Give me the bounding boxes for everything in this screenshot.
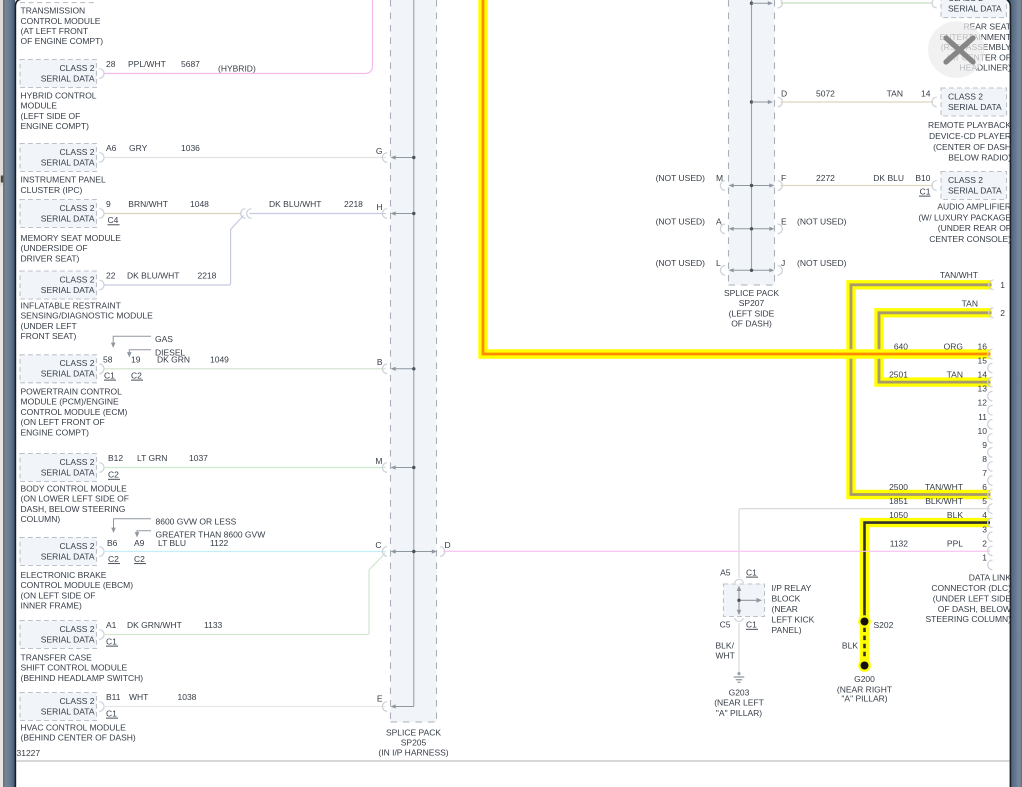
DLC connector arc pin 14 (988, 377, 993, 387)
svg-text:640: 640 (894, 342, 908, 352)
svg-text:DEVICE-CD PLAYER: DEVICE-CD PLAYER (929, 131, 1011, 141)
svg-text:(NEAR: (NEAR (772, 604, 798, 614)
svg-text:9: 9 (982, 440, 987, 450)
svg-text:(NOT USED): (NOT USED) (797, 216, 847, 226)
DLC connector arc pin 10 (988, 434, 993, 444)
DLC connector arc pin 9 (988, 448, 993, 458)
svg-text:LT GRN: LT GRN (137, 453, 167, 463)
GREATER THAN pointer elbow arrow (137, 531, 151, 534)
SP205 connector arc at M (382, 463, 387, 473)
svg-text:MEMORY SEAT MODULE: MEMORY SEAT MODULE (21, 233, 122, 243)
SP205 connector arc at B (382, 364, 387, 374)
left sidebar grip mark (1, 176, 3, 183)
connector box U7 CLASS 2 SERIAL DATA (EBCM) (20, 538, 97, 566)
svg-text:TAN/WHT: TAN/WHT (925, 482, 963, 492)
SP205 arrow at M (395, 467, 414, 469)
SP205 pass-through arrow C to D (395, 551, 434, 553)
svg-text:C1: C1 (746, 567, 757, 577)
svg-text:12: 12 (978, 398, 988, 408)
connector box CLASS 2 SERIAL DATA (RSE, cut at top) (941, 0, 1007, 18)
svg-text:(UNDER REAR OF: (UNDER REAR OF (938, 223, 1011, 233)
svg-text:(NOT USED): (NOT USED) (656, 173, 706, 183)
svg-text:8600 GVW OR LESS: 8600 GVW OR LESS (156, 516, 237, 526)
svg-text:1122: 1122 (210, 538, 229, 548)
svg-text:CONNECTOR (DLC): CONNECTOR (DLC) (931, 583, 1011, 593)
svg-text:F: F (781, 173, 786, 183)
SP205 connector arc at G (382, 153, 387, 163)
DLC connector arc pin 5 (988, 504, 993, 514)
DLC connector arc pin 3 (988, 532, 993, 542)
svg-text:(BEHIND CENTER OF DASH): (BEHIND CENTER OF DASH) (21, 733, 136, 743)
svg-text:CENTER CONSOLE): CENTER CONSOLE) (929, 234, 1011, 244)
svg-text:(ON LEFT FRONT OF: (ON LEFT FRONT OF (21, 417, 105, 427)
svg-text:CLASS 2: CLASS 2 (60, 203, 95, 213)
svg-text:PANEL): PANEL) (772, 625, 802, 635)
svg-text:DK BLU/WHT: DK BLU/WHT (127, 271, 179, 281)
svg-text:INFLATABLE RESTRAINT: INFLATABLE RESTRAINT (21, 301, 121, 311)
svg-text:C1: C1 (104, 370, 115, 380)
wire BRN/WHT 1048 from memory seat module (104, 213, 243, 215)
connector arc at EBCM pins (99, 547, 104, 557)
SP205 junction dot at G (412, 156, 415, 159)
relay block top connector arc (735, 579, 744, 583)
svg-text:A6: A6 (106, 143, 117, 153)
connector arc at inflatable restraint pin 22 (99, 280, 104, 290)
svg-text:DK BLU/WHT: DK BLU/WHT (269, 199, 321, 209)
svg-text:OF DASH, BELOW: OF DASH, BELOW (938, 604, 1011, 614)
svg-text:2272: 2272 (816, 173, 835, 183)
svg-text:SERIAL DATA: SERIAL DATA (41, 634, 95, 644)
svg-text:SP205: SP205 (401, 738, 427, 748)
svg-text:1036: 1036 (181, 143, 200, 153)
svg-text:CLASS 2: CLASS 2 (60, 63, 95, 73)
svg-text:CONTROL MODULE (ECM): CONTROL MODULE (ECM) (21, 407, 128, 417)
svg-text:DK BLU: DK BLU (873, 173, 904, 183)
svg-text:ENGINE COMPT): ENGINE COMPT) (21, 427, 90, 437)
svg-text:DATA LINK: DATA LINK (969, 573, 1012, 583)
svg-text:(NOT USED): (NOT USED) (797, 258, 847, 268)
connector box U4 CLASS 2 SERIAL DATA (inflatable restraint module) (20, 271, 97, 299)
svg-text:C4: C4 (108, 215, 119, 225)
left outer window border line (3, 0, 4, 787)
dashed BLK wire between splice S202 and ground G200 (863, 628, 866, 659)
svg-text:(UNDERSIDE OF: (UNDERSIDE OF (21, 243, 88, 253)
DLC connector arc pin 1 top (989, 280, 994, 290)
svg-text:BLK/: BLK/ (716, 640, 735, 650)
ground G200 dot (858, 659, 871, 672)
connector box U8 CLASS 2 SERIAL DATA (transfer case module) (20, 621, 97, 649)
svg-text:BLK: BLK (947, 510, 963, 520)
svg-text:SERIAL DATA: SERIAL DATA (41, 551, 95, 561)
connector box CLASS 2 SERIAL DATA (audio amplifier) (941, 172, 1007, 200)
svg-text:AUDIO AMPLIFIER: AUDIO AMPLIFIER (937, 202, 1011, 212)
DLC connector arc pin 16 (988, 349, 993, 359)
svg-text:TRANSFER CASE: TRANSFER CASE (21, 653, 93, 663)
svg-text:1133: 1133 (204, 620, 223, 630)
svg-text:DK GRN/WHT: DK GRN/WHT (127, 620, 182, 630)
GAS pointer elbow arrow (113, 336, 151, 344)
svg-text:"A" PILLAR): "A" PILLAR) (716, 708, 762, 718)
connector arc at hybrid module pin 28 (99, 69, 104, 79)
svg-text:J: J (781, 258, 785, 268)
svg-text:WHT: WHT (716, 651, 735, 661)
highlighted wire BLK 1050 from DLC pin 4 to ground G200 (865, 523, 991, 666)
SP207 double arrow at M/F row (733, 185, 771, 187)
svg-text:CLASS 2: CLASS 2 (60, 457, 95, 467)
svg-text:5072: 5072 (816, 89, 835, 99)
left outer window strip (0, 0, 3, 787)
svg-text:TAN: TAN (962, 298, 978, 308)
svg-text:LEFT KICK: LEFT KICK (772, 615, 815, 625)
svg-text:(LEFT SIDE OF: (LEFT SIDE OF (21, 111, 81, 121)
svg-text:HYBRID CONTROL: HYBRID CONTROL (21, 91, 97, 101)
svg-text:MODULE (PCM)/ENGINE: MODULE (PCM)/ENGINE (21, 397, 120, 407)
svg-text:10: 10 (978, 426, 988, 436)
svg-text:B6: B6 (107, 538, 118, 548)
close button (928, 21, 985, 78)
svg-text:ORG: ORG (944, 342, 963, 352)
I/P relay block box (724, 584, 765, 617)
svg-text:CLASS 2: CLASS 2 (60, 624, 95, 634)
connector arc at remote playback box (932, 97, 937, 107)
wire DK BLU/WHT 2218 to SP205 at H (250, 213, 386, 215)
svg-text:"A" PILLAR): "A" PILLAR) (841, 694, 887, 704)
SP207 connector arc at M row left (720, 181, 725, 191)
SP205 arrow at H (395, 213, 414, 215)
highlighted wire TAN/WHT from DLC pin 1 to pin 6 (851, 285, 992, 495)
splice pack SP207 right dashed boundary (774, 0, 776, 285)
splice pack SP205 left dashed boundary (390, 0, 392, 722)
SP205 connector arc at E (382, 702, 387, 712)
svg-text:DK GRN: DK GRN (157, 354, 190, 364)
SP207 connector arc at F row right (778, 181, 783, 191)
left slate sidebar (5, 0, 16, 787)
svg-text:SERIAL DATA: SERIAL DATA (948, 185, 1002, 195)
svg-text:8: 8 (982, 454, 987, 464)
connector box CLASS 2 SERIAL DATA (remote playback) (941, 88, 1007, 116)
splice pack SP205 right dashed boundary (436, 0, 438, 722)
svg-text:CLASS 2: CLASS 2 (948, 91, 983, 101)
splice pack SP207 left dashed boundary (728, 0, 730, 285)
connector arc at memory seat module pin 9 (99, 209, 104, 219)
svg-text:31227: 31227 (17, 748, 41, 758)
svg-text:WHT: WHT (129, 692, 148, 702)
svg-text:SERIAL DATA: SERIAL DATA (41, 285, 95, 295)
DLC connector arc pin 8 (988, 462, 993, 472)
DLC connector arc pin 15 (988, 363, 993, 373)
svg-text:BLOCK: BLOCK (772, 594, 801, 604)
connector arc at BCM pin B12 (99, 463, 104, 473)
svg-text:B10: B10 (915, 173, 930, 183)
svg-text:SERIAL DATA: SERIAL DATA (41, 706, 95, 716)
splice pack SP207 bottom dashed edge (729, 284, 775, 286)
splice pack SP205 bottom dashed edge (391, 721, 437, 723)
svg-text:TAN: TAN (947, 370, 963, 380)
svg-text:L: L (716, 258, 721, 268)
SP205 arrow at G (395, 157, 414, 159)
cut-off module box at top left (bottom edge) (20, 2, 97, 4)
SP205 arrow at B (395, 368, 414, 370)
svg-text:(UNDER LEFT SIDE: (UNDER LEFT SIDE (933, 593, 1012, 603)
DIESEL pointer elbow arrow (129, 350, 151, 354)
svg-text:CONTROL MODULE (EBCM): CONTROL MODULE (EBCM) (21, 580, 134, 590)
svg-text:CLASS 2: CLASS 2 (948, 175, 983, 185)
svg-text:(HYBRID): (HYBRID) (218, 64, 256, 74)
svg-text:FRONT SEAT): FRONT SEAT) (21, 331, 77, 341)
wire LT BLU 1122 from EBCM to SP205 (104, 551, 386, 553)
svg-text:G: G (376, 146, 383, 156)
DLC connector arc pin 1 (988, 560, 993, 570)
inline connector arcs between 1048 and 2218 (241, 209, 246, 219)
svg-text:1132: 1132 (890, 538, 909, 548)
svg-text:1037: 1037 (189, 453, 208, 463)
svg-text:2218: 2218 (198, 271, 217, 281)
svg-text:CLASS 2: CLASS 2 (60, 274, 95, 284)
svg-text:C2: C2 (108, 554, 119, 564)
svg-text:(NOT USED): (NOT USED) (656, 216, 706, 226)
DLC connector arc pin 4 (988, 518, 993, 528)
splice S202 dot (858, 615, 871, 628)
wire PPL/WHT 5687 from hybrid module to top of page (104, 0, 373, 74)
svg-text:E: E (781, 216, 787, 226)
svg-text:SERIAL DATA: SERIAL DATA (41, 213, 95, 223)
svg-text:5: 5 (982, 496, 987, 506)
svg-text:CLASS 2: CLASS 2 (60, 147, 95, 157)
svg-text:SHIFT CONTROL MODULE: SHIFT CONTROL MODULE (21, 663, 128, 673)
SP207 connector arc at L row left (720, 266, 725, 276)
svg-text:DRIVER SEAT): DRIVER SEAT) (21, 253, 80, 263)
SP205 junction dot at M (412, 466, 415, 469)
relay block internal arrows (738, 589, 740, 612)
SP207 junction dot at top row (750, 2, 753, 5)
svg-text:28: 28 (106, 59, 116, 69)
svg-text:C2: C2 (134, 554, 145, 564)
svg-text:BLK: BLK (842, 641, 858, 651)
svg-text:INNER FRAME): INNER FRAME) (21, 601, 83, 611)
svg-text:4: 4 (982, 510, 987, 520)
svg-text:(BEHIND HEADLAMP SWITCH): (BEHIND HEADLAMP SWITCH) (21, 673, 144, 683)
svg-text:GAS: GAS (155, 334, 173, 344)
svg-text:C2: C2 (108, 470, 119, 480)
svg-text:22: 22 (106, 271, 116, 281)
svg-text:M: M (375, 456, 382, 466)
svg-text:BODY CONTROL MODULE: BODY CONTROL MODULE (21, 484, 128, 494)
SP207 double arrow at A/E row (733, 228, 771, 230)
svg-text:SP207: SP207 (739, 298, 765, 308)
svg-text:B11: B11 (106, 692, 121, 702)
svg-text:COLUMN): COLUMN) (21, 514, 61, 524)
svg-text:2218: 2218 (344, 199, 363, 209)
svg-text:58: 58 (103, 354, 113, 364)
svg-text:TAN/WHT: TAN/WHT (940, 270, 978, 280)
svg-text:REMOTE PLAYBACK: REMOTE PLAYBACK (928, 120, 1011, 130)
svg-text:5687: 5687 (181, 59, 200, 69)
svg-text:LT BLU: LT BLU (158, 538, 186, 548)
svg-text:PPL: PPL (947, 538, 963, 548)
DLC connector arc pin 2 top (989, 308, 994, 318)
svg-text:E: E (377, 693, 383, 703)
SP207 junction dot at D row (750, 100, 753, 103)
splice pack SP207 center bus line (751, 0, 753, 270)
connector box U1 CLASS 2 SERIAL DATA (hybrid control module) (20, 60, 97, 88)
wire DK BLU/WHT 2218 up to inline connector (104, 216, 244, 286)
svg-text:14: 14 (921, 89, 931, 99)
svg-text:A: A (716, 216, 722, 226)
SP205 arrow at E (395, 706, 414, 708)
svg-text:C1: C1 (106, 636, 117, 646)
8600 GVW pointer elbow arrow (114, 519, 152, 529)
highlighted wire TAN 2501 from DLC pin 2 to pin 14 (879, 313, 992, 382)
svg-text:STEERING COLUMN): STEERING COLUMN) (926, 614, 1012, 624)
DLC connector arc pin 12 (988, 405, 993, 415)
SP207 connector arc at E row right (778, 224, 783, 234)
SP207 junction dot at A/E row (750, 227, 753, 230)
svg-text:CLASS 2: CLASS 2 (60, 696, 95, 706)
svg-text:POWERTRAIN CONTROL: POWERTRAIN CONTROL (21, 387, 123, 397)
SP207 connector arc at J row right (778, 266, 783, 276)
svg-text:ENGINE COMPT): ENGINE COMPT) (21, 121, 90, 131)
svg-text:15: 15 (978, 356, 988, 366)
connector box U2 CLASS 2 SERIAL DATA (instrument panel cluster) (20, 144, 97, 172)
svg-text:2: 2 (982, 538, 987, 548)
svg-text:SERIAL DATA: SERIAL DATA (948, 3, 1002, 13)
splice pack SP207 fill (729, 0, 775, 285)
wire DK GRN 1049 from PCM to SP205 (104, 368, 386, 370)
splice pack SP205 fill (391, 0, 437, 722)
svg-text:(UNDER LEFT: (UNDER LEFT (21, 321, 77, 331)
svg-text:14: 14 (978, 370, 988, 380)
SP205 junction dot at H (412, 212, 415, 215)
svg-text:G203: G203 (729, 687, 750, 697)
SP207 arrow at D row (752, 101, 770, 103)
DLC connector arc pin 7 (988, 476, 993, 486)
SP207 junction dot at L/J row (750, 269, 753, 272)
svg-text:A9: A9 (134, 538, 145, 548)
wire GRY 1036 from IPC to SP205 (104, 157, 386, 159)
svg-text:C: C (375, 540, 381, 550)
svg-text:1038: 1038 (178, 692, 197, 702)
svg-text:2500: 2500 (889, 482, 908, 492)
svg-text:11: 11 (978, 412, 987, 422)
svg-text:(LEFT SIDE: (LEFT SIDE (729, 308, 775, 318)
svg-text:1048: 1048 (190, 199, 209, 209)
svg-text:6: 6 (982, 482, 987, 492)
svg-text:(ON LOWER LEFT SIDE OF: (ON LOWER LEFT SIDE OF (21, 494, 129, 504)
svg-text:INSTRUMENT PANEL: INSTRUMENT PANEL (21, 175, 106, 185)
svg-text:(W/ LUXURY PACKAGE: (W/ LUXURY PACKAGE (918, 212, 1011, 222)
DLC connector arc pin 6 (988, 490, 993, 500)
svg-text:CLUSTER (IPC): CLUSTER (IPC) (21, 185, 83, 195)
svg-text:(CENTER OF DASH: (CENTER OF DASH (933, 142, 1011, 152)
svg-text:1049: 1049 (210, 354, 229, 364)
svg-text:S202: S202 (874, 620, 894, 630)
SP207 junction dot at M/F row (750, 184, 753, 187)
svg-text:PPL/WHT: PPL/WHT (128, 59, 166, 69)
svg-text:C5: C5 (720, 620, 731, 630)
connector box U9 CLASS 2 SERIAL DATA (HVAC control module) (20, 693, 97, 721)
svg-text:C2: C2 (131, 370, 142, 380)
SP205 junction dot at B (412, 367, 415, 370)
svg-text:(ON LEFT SIDE OF: (ON LEFT SIDE OF (21, 590, 96, 600)
svg-text:3: 3 (982, 524, 987, 534)
svg-text:BRN/WHT: BRN/WHT (128, 199, 168, 209)
relay block bottom connector arc (735, 618, 744, 622)
wire BLK/WHT 1851 from DLC pin 5 to I/P relay block (739, 509, 990, 578)
svg-text:B12: B12 (108, 453, 123, 463)
connector box U6 CLASS 2 SERIAL DATA (body control module) (20, 454, 97, 482)
highlighted wire ORG 640 from page top to DLC pin 16 (483, 0, 991, 354)
svg-text:CLASS 2: CLASS 2 (60, 541, 95, 551)
SP205 connector arc at C (382, 547, 387, 557)
svg-text:(NEAR LEFT: (NEAR LEFT (714, 698, 764, 708)
svg-text:SENSING/DIAGNOSTIC MODULE: SENSING/DIAGNOSTIC MODULE (21, 311, 154, 321)
wire LT GRN 1037 from BCM to SP205 (104, 467, 386, 469)
right slate sidebar (1006, 0, 1022, 787)
SP207 connector arc top right (778, 0, 783, 8)
svg-text:C1: C1 (920, 186, 931, 196)
svg-text:(AT LEFT FRONT: (AT LEFT FRONT (21, 26, 89, 36)
svg-text:B: B (377, 357, 383, 367)
svg-text:BLK/WHT: BLK/WHT (925, 496, 963, 506)
svg-text:SERIAL DATA: SERIAL DATA (41, 157, 95, 167)
svg-text:2: 2 (1000, 308, 1005, 318)
svg-text:SERIAL DATA: SERIAL DATA (41, 369, 95, 379)
SP207 connector arc at D row (778, 97, 783, 107)
wire WHT 1038 from HVAC to SP205 (104, 706, 386, 708)
wire DK BLU 2272 to audio amplifier (781, 185, 934, 187)
DLC connector arc pin 13 (988, 391, 993, 401)
splice pack SP205 center bus line (413, 0, 415, 707)
svg-text:MODULE: MODULE (21, 101, 58, 111)
svg-text:SERIAL DATA: SERIAL DATA (41, 467, 95, 477)
wire PPL 1132 from SP205 D to DLC pin 2 (443, 550, 990, 552)
svg-text:7: 7 (982, 468, 987, 478)
DLC connector arc pin 11 (988, 420, 993, 430)
svg-text:I/P RELAY: I/P RELAY (772, 583, 812, 593)
wire from relay block to ground G203 (738, 623, 740, 672)
wire CLASS 2 to rear seat entertainment (781, 2, 934, 4)
svg-text:SERIAL DATA: SERIAL DATA (41, 73, 95, 83)
svg-text:A1: A1 (106, 620, 117, 630)
DLC connector arc pin 2 (988, 546, 993, 556)
svg-text:1050: 1050 (889, 510, 908, 520)
svg-text:(IN I/P HARNESS): (IN I/P HARNESS) (378, 748, 448, 758)
svg-text:1: 1 (982, 552, 987, 562)
svg-text:SERIAL DATA: SERIAL DATA (948, 102, 1002, 112)
svg-text:13: 13 (978, 384, 988, 394)
svg-text:SPLICE PACK: SPLICE PACK (724, 288, 779, 298)
SP205 connector arc at H (382, 209, 387, 219)
wire TAN 5072 to remote playback device (781, 101, 934, 103)
connector arc at transfer case pin A1 (99, 630, 104, 640)
wire PPL 1132 overlay across highlighted wires (443, 550, 990, 552)
svg-text:1: 1 (1000, 280, 1005, 290)
diagram bottom separator line (16, 760, 1009, 762)
connector arc at audio amplifier box (932, 181, 937, 191)
connector arc at IPC pin A6 (99, 153, 104, 163)
svg-text:CLASS 2: CLASS 2 (60, 358, 95, 368)
SP207 arrow to rear seat entertainment (752, 2, 770, 4)
SP205 connector arc at D (440, 547, 445, 557)
svg-text:TRANSMISSION: TRANSMISSION (21, 6, 86, 16)
svg-text:TAN: TAN (887, 89, 903, 99)
svg-text:HVAC CONTROL MODULE: HVAC CONTROL MODULE (21, 723, 127, 733)
svg-text:OF ENGINE COMPT): OF ENGINE COMPT) (21, 36, 104, 46)
svg-text:DASH, BELOW STEERING: DASH, BELOW STEERING (21, 504, 126, 514)
connector arc at HVAC pin B11 (99, 702, 104, 712)
connector arc at RSE box (932, 0, 937, 8)
svg-text:C1: C1 (106, 708, 117, 718)
